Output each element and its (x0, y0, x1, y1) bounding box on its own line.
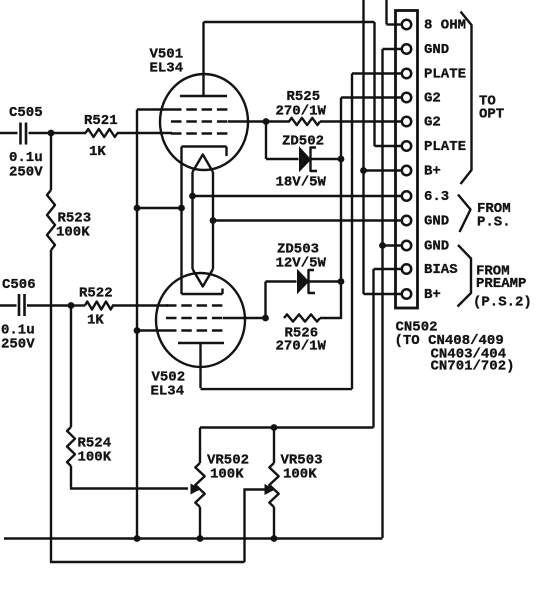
svg-text:OPT: OPT (479, 107, 504, 123)
node A to V502 g3 (134, 327, 141, 334)
node A ground (134, 535, 141, 542)
V502 grid g2 dashes (166, 317, 223, 319)
node V501 g2 (263, 118, 270, 125)
svg-text:GND: GND (424, 239, 449, 255)
wire 6.3 to pin8 (193, 195, 402, 197)
svg-text:G2: G2 (424, 115, 441, 131)
potentiometer VR503 (273, 428, 275, 464)
wire g3 V501 to column A (137, 108, 171, 110)
svg-text:GND: GND (424, 214, 449, 230)
svg-text:270/1W: 270/1W (276, 104, 327, 120)
svg-text:ZD502: ZD502 (282, 134, 324, 150)
node cathode tie B (178, 205, 185, 212)
svg-text:12V/5W: 12V/5W (276, 256, 327, 272)
resistor R526 (284, 314, 320, 321)
svg-text:250V: 250V (9, 165, 43, 181)
svg-text:270/1W: 270/1W (276, 339, 327, 355)
zener ZD503 (264, 282, 266, 319)
node VR503 top tap (271, 424, 278, 431)
V501 g2 wire to R525 node (228, 120, 266, 122)
wire A to V502 g3 (137, 329, 166, 331)
node A-cathode tie (134, 205, 141, 212)
resistor R524 (70, 306, 72, 428)
VR503 wiper arrow (265, 484, 276, 495)
wire 8ohm from top (385, 0, 387, 25)
heater rail right (212, 172, 214, 269)
bracket FROM PS (458, 195, 471, 233)
V501 plate bar (180, 95, 227, 98)
V502 grid g3 dashes (166, 329, 223, 331)
wire ground bus (4, 537, 383, 539)
tube V502 envelope (156, 273, 245, 367)
node VR503 ground (271, 535, 278, 542)
wire column A (136, 110, 138, 539)
svg-text:250V: 250V (1, 337, 35, 353)
svg-text:C505: C505 (9, 105, 43, 121)
wire R523 to bottom bus2 (50, 250, 52, 561)
wire B+ riser (362, 0, 364, 294)
svg-text:6.3: 6.3 (424, 189, 449, 205)
svg-text:EL34: EL34 (151, 384, 185, 400)
svg-text:100K: 100K (210, 467, 244, 483)
connector pins (402, 20, 411, 29)
svg-text:8 OHM: 8 OHM (424, 18, 466, 34)
svg-text:B+: B+ (424, 164, 441, 180)
svg-text:CN701/702): CN701/702) (431, 359, 515, 375)
svg-text:R521: R521 (84, 113, 118, 129)
svg-text:PLATE: PLATE (424, 67, 466, 83)
node heater gnd (210, 217, 217, 224)
potentiometer VR502 (199, 428, 201, 464)
svg-text:(P.S.2): (P.S.2) (473, 295, 532, 311)
V502 g2 wire to R526 node (223, 317, 266, 319)
svg-text:BIAS: BIAS (424, 262, 458, 278)
svg-text:PREAMP: PREAMP (476, 276, 526, 292)
heater rail left (191, 172, 193, 269)
node ZD502 to riser (338, 156, 345, 163)
svg-text:R522: R522 (79, 286, 113, 302)
node heater 6.3 (189, 193, 196, 200)
svg-text:GND: GND (424, 42, 449, 58)
V502 plate bar (178, 342, 224, 345)
wire riser plate-V502 to pin3 (351, 74, 353, 390)
wire cathode column B (180, 147, 182, 295)
node ZD503 to riser (338, 278, 345, 285)
svg-text:C506: C506 (2, 277, 36, 293)
capacitor C505 (0, 132, 18, 134)
tube V501 envelope (160, 74, 248, 170)
wire heater gnd to pin9 (213, 219, 402, 221)
wire bias riser to pots (374, 268, 402, 270)
resistor R522 (71, 304, 85, 306)
svg-text:100K: 100K (78, 450, 112, 466)
VR502 wiper arrow (191, 484, 202, 495)
svg-text:18V/5W: 18V/5W (276, 175, 327, 191)
svg-text:100K: 100K (56, 225, 90, 241)
node B+ pin7 tap (360, 167, 367, 174)
wire R525 to pin5 G2 (320, 120, 402, 122)
svg-text:100K: 100K (283, 467, 317, 483)
V501 grid g3 dashes (171, 108, 228, 110)
V502 heater chevron (193, 269, 214, 287)
wire GND riser (381, 49, 383, 538)
svg-text:B+: B+ (424, 287, 441, 303)
wire R524 to VR502 wiper (70, 466, 72, 487)
node VR502 ground (197, 535, 204, 542)
svg-text:EL34: EL34 (150, 61, 184, 77)
resistor R521 (51, 132, 86, 134)
svg-text:P.S.: P.S. (477, 215, 511, 231)
V501 cathode bar (182, 145, 227, 148)
V501 heater chevron (193, 155, 214, 173)
svg-text:1K: 1K (89, 144, 106, 160)
V502 cathode bar (182, 293, 223, 296)
wire riser G2-pin4 (340, 98, 342, 320)
resistor R523 (50, 133, 52, 190)
resistor R525 (289, 118, 320, 125)
V501 plate lead (202, 22, 204, 96)
wire cathode tie (137, 207, 182, 209)
wire pin7 B+ (362, 169, 402, 171)
node GND pin10 tap (379, 242, 386, 249)
bracket FROM PREAMP (458, 245, 472, 307)
wire pin10 GND (383, 244, 402, 246)
V502 plate lead (199, 343, 201, 388)
wire pot top bus (200, 426, 374, 428)
svg-text:G2: G2 (424, 91, 441, 107)
svg-text:1K: 1K (87, 313, 104, 329)
connector CN502 body (396, 11, 418, 309)
wire VR503 wiper (245, 488, 265, 490)
V501 grid g1 dashes (171, 132, 228, 134)
node V502 g2 (262, 315, 269, 322)
node grid1 junction (48, 130, 55, 137)
zener ZD502 (265, 122, 267, 160)
bracket TO OPT (461, 12, 472, 185)
V501 grid g2 dashes (171, 120, 228, 122)
wire V501 plate to pin6 (204, 21, 375, 23)
capacitor C506 (0, 304, 17, 306)
V502 grid g1 dashes (166, 304, 223, 306)
svg-text:PLATE: PLATE (424, 139, 466, 155)
node grid2 junction (68, 302, 75, 309)
